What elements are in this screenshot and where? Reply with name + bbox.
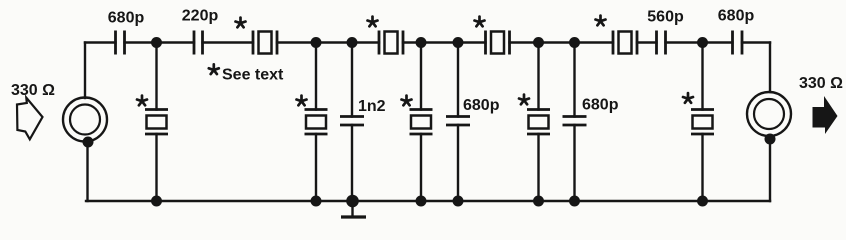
svg-text:560p: 560p: [647, 9, 684, 26]
svg-text:330 Ω: 330 Ω: [799, 75, 843, 92]
svg-text:680p: 680p: [718, 8, 755, 25]
svg-text:220p: 220p: [182, 8, 219, 25]
svg-text:680p: 680p: [463, 97, 500, 114]
svg-text:1n2: 1n2: [358, 98, 386, 115]
svg-text:680p: 680p: [108, 10, 145, 27]
svg-text:680p: 680p: [582, 97, 619, 114]
svg-text:See text: See text: [222, 67, 284, 84]
svg-text:330 Ω: 330 Ω: [11, 82, 55, 99]
